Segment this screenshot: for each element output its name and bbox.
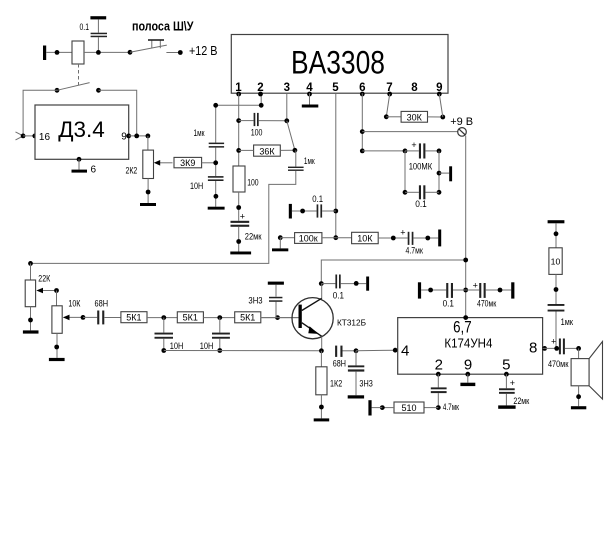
node: [81, 315, 86, 320]
svg-text:1мк: 1мк: [561, 317, 573, 327]
capacitor 470мк (output, polarized): [548, 337, 581, 370]
svg-text:1мк: 1мк: [304, 156, 315, 166]
svg-text:BA3308: BA3308: [291, 45, 385, 81]
capacitor 22мк (polarized): [230, 212, 261, 255]
svg-text:9: 9: [121, 131, 127, 142]
IC BA3308: [231, 35, 448, 95]
svg-text:36К: 36К: [259, 147, 275, 157]
node: [28, 261, 33, 266]
capacitor 1мк (left rail): [194, 128, 225, 148]
svg-text:470мк: 470мк: [477, 299, 496, 309]
wire pin6 rail: [361, 93, 363, 151]
resistor 30К (pins 7-9): [384, 94, 445, 122]
ground: [49, 358, 65, 361]
svg-text:10К: 10К: [68, 299, 81, 309]
node: [134, 134, 139, 139]
svg-text:3Н3: 3Н3: [359, 378, 372, 388]
svg-text:6: 6: [91, 165, 97, 176]
wire: [129, 135, 148, 137]
svg-text:100МК: 100МК: [409, 162, 433, 172]
capacitor 470мк (supply, polarized): [466, 280, 515, 308]
svg-text:0.1: 0.1: [333, 291, 344, 301]
resistor 100к: [280, 233, 351, 244]
wire: [30, 307, 32, 331]
svg-text:6,7: 6,7: [453, 319, 472, 337]
wire diagonal to 36К: [287, 121, 295, 151]
wire: [99, 90, 137, 136]
wire long return bus: [31, 171, 296, 264]
svg-text:22мк: 22мк: [245, 232, 262, 242]
node: [214, 194, 219, 199]
node: [54, 288, 59, 293]
capacitor 22мк (pin5, polarized): [498, 374, 529, 409]
terminal tap: [439, 166, 452, 181]
potentiometer 22К: [25, 263, 56, 306]
svg-text:3: 3: [284, 82, 290, 94]
wire collector: [321, 284, 323, 299]
capacitor 1мк (speaker branch): [548, 304, 573, 348]
svg-text:10Н: 10Н: [190, 181, 203, 191]
wire pin3 stub: [286, 93, 288, 121]
svg-text:2: 2: [435, 356, 443, 373]
svg-text:68Н: 68Н: [333, 358, 346, 368]
svg-text:+: +: [240, 212, 245, 222]
capacitor 0.1 (top-left, with top terminal plate): [80, 16, 108, 52]
wire pin2 feed rail: [216, 94, 262, 143]
pin8 node: [542, 346, 547, 351]
capacitor 0.1 (supply decoupling): [418, 282, 466, 308]
svg-text:5: 5: [332, 82, 339, 94]
capacitor 4.7мк (polarized): [400, 228, 438, 256]
node: [554, 231, 559, 236]
node base: [275, 315, 280, 320]
wire: [555, 223, 557, 248]
capacitor 1мк (pin3 branch): [288, 150, 315, 171]
svg-text:+9 В: +9 В: [450, 116, 473, 128]
terminal (top right): [548, 220, 565, 223]
node pin16: [32, 134, 37, 139]
node: [217, 315, 222, 320]
capacitor 3Н3 (to ground): [348, 351, 373, 399]
potentiometer 10К: [52, 299, 83, 334]
svg-text:Д3.4: Д3.4: [58, 117, 105, 142]
+9 В supply connector: [450, 116, 473, 136]
resistor 1К2: [314, 351, 343, 422]
svg-text:5: 5: [502, 356, 510, 373]
node pin 6,7 top: [463, 315, 468, 320]
wire emitter bus: [164, 350, 322, 352]
svg-text:5К1: 5К1: [240, 313, 255, 323]
svg-text:+: +: [473, 280, 478, 290]
wire emitter: [321, 336, 323, 350]
svg-text:К174УН4: К174УН4: [444, 336, 492, 351]
wire: [555, 274, 557, 304]
svg-text:10Н: 10Н: [200, 341, 214, 351]
node: [236, 118, 241, 123]
wire loop left rail: [404, 151, 406, 192]
svg-text:8: 8: [411, 82, 418, 94]
pin 9 node: [126, 134, 131, 139]
wire: [46, 51, 72, 53]
capacitor 68Н (series): [83, 299, 121, 325]
svg-text:полоса Ш\У: полоса Ш\У: [132, 19, 194, 34]
pin9 ground: [460, 372, 475, 386]
wire: [215, 181, 217, 207]
pin5 node: [504, 372, 509, 377]
svg-text:22К: 22К: [38, 274, 51, 284]
wire: [147, 136, 149, 150]
node emitter: [319, 348, 324, 353]
node pin4: [393, 348, 398, 353]
svg-text:30К: 30К: [407, 112, 423, 122]
svg-text:0.1: 0.1: [443, 299, 454, 309]
svg-text:68Н: 68Н: [95, 299, 109, 309]
node: [213, 160, 218, 165]
wire +9V feed: [362, 131, 457, 133]
wire: [56, 291, 58, 306]
svg-text:1мк: 1мк: [194, 128, 205, 138]
svg-text:510: 510: [401, 403, 416, 413]
pin4 ground: [302, 93, 319, 107]
ground: [23, 330, 39, 333]
node: [391, 236, 396, 241]
wire collector supply run: [321, 260, 465, 284]
svg-text:10К: 10К: [357, 234, 373, 244]
pin1 node: [236, 92, 241, 97]
node: [554, 346, 559, 351]
pin9 node: [437, 92, 442, 97]
svg-text:100: 100: [251, 128, 263, 138]
IC К174УН4: [398, 318, 543, 375]
pin 6 ground: [72, 157, 97, 176]
pin7 node: [387, 92, 392, 97]
speaker: [571, 342, 603, 410]
resistor (relay coil, vertical): [72, 41, 84, 64]
resistor 5К1 (3): [235, 312, 298, 323]
capacitor 100МК (polarized, loop top): [403, 140, 442, 172]
ground: [208, 207, 225, 210]
resistor 10: [549, 248, 562, 275]
svg-text:4.7мк: 4.7мк: [406, 245, 423, 255]
capacitor 10Н (shunt 2): [200, 318, 230, 353]
svg-text:5К1: 5К1: [183, 313, 198, 323]
svg-text:+: +: [411, 140, 416, 150]
node: [236, 205, 241, 210]
svg-text:3Н3: 3Н3: [248, 295, 262, 305]
svg-text:КТ312Б: КТ312Б: [337, 317, 366, 327]
wire: [238, 192, 240, 221]
wire: [362, 150, 405, 152]
capacitor 68Н (emitter out): [333, 346, 356, 369]
IC Д3.4: [35, 105, 129, 159]
pin6 node: [360, 92, 365, 97]
wire to pin4: [356, 349, 395, 352]
node: [293, 148, 298, 153]
node: [333, 209, 338, 214]
node: [28, 318, 33, 323]
svg-text:5К1: 5К1: [126, 313, 141, 323]
push-button switch to +12 B: [128, 39, 183, 55]
svg-text:10: 10: [551, 256, 561, 266]
capacitor 3Н3 + input terminal (base): [248, 282, 284, 318]
wire: [202, 162, 216, 164]
potentiometer 2К2: [126, 150, 173, 178]
node: [54, 345, 59, 350]
resistor 3К9: [174, 157, 202, 168]
svg-text:2К2: 2К2: [126, 166, 138, 176]
pin2 node: [436, 372, 441, 377]
svg-text:4.7мк: 4.7мк: [443, 402, 459, 412]
node: [319, 281, 324, 286]
capacitor 10Н (shunt 1): [155, 318, 184, 353]
wire loop right rail: [438, 151, 440, 192]
input terminal + capacitor 0.1 (series, y=211): [289, 194, 336, 219]
svg-text:+: +: [551, 337, 556, 347]
node: [360, 149, 365, 154]
wire +9V rail down: [465, 136, 467, 318]
dashed link relay coil to contact: [78, 64, 80, 85]
resistor 5К1 (2): [177, 312, 234, 323]
node: [284, 118, 289, 123]
wire: [56, 333, 58, 358]
node: [463, 258, 468, 263]
svg-text:0.1: 0.1: [415, 199, 427, 209]
svg-text:0.1: 0.1: [312, 194, 323, 204]
transistor КТ312Б: [261, 298, 366, 339]
svg-text:16: 16: [39, 132, 51, 143]
capacitor 0.1 (collector out): [321, 275, 369, 301]
node: [161, 315, 166, 320]
resistor 10К: [352, 232, 408, 243]
node: [360, 129, 365, 134]
ground: [140, 203, 156, 206]
wire: [543, 347, 559, 349]
resistor 36К: [239, 145, 295, 157]
node: [354, 348, 359, 353]
svg-text:470мк: 470мк: [548, 359, 568, 369]
svg-text:+: +: [510, 378, 515, 388]
node: [259, 103, 264, 108]
antenna input arrow at pin 16: [16, 132, 26, 140]
resistor 100 (vertical): [233, 166, 259, 192]
svg-text:100: 100: [247, 178, 258, 188]
node: [55, 50, 60, 55]
wire: [23, 90, 57, 136]
wire pin5 rail: [335, 93, 337, 238]
svg-text:22мк: 22мк: [513, 396, 529, 406]
wire: [23, 135, 35, 137]
svg-text:10Н: 10Н: [170, 341, 184, 351]
resistor 510: [368, 400, 438, 415]
svg-text:4: 4: [401, 342, 409, 359]
wire pin1 rail: [238, 93, 240, 166]
pin4 node: [307, 92, 312, 97]
svg-text:9: 9: [464, 356, 472, 373]
svg-text:+: +: [400, 228, 405, 238]
wire: [215, 148, 217, 177]
node: [213, 103, 218, 108]
svg-text:100к: 100к: [299, 234, 318, 244]
resistor 5К1 (1): [121, 312, 177, 323]
node: [554, 287, 559, 292]
node: [146, 190, 151, 195]
svg-text:8: 8: [529, 339, 537, 356]
svg-text:0.1: 0.1: [80, 22, 90, 32]
node: [146, 134, 151, 139]
capacitor 0.1 (loop bottom): [403, 185, 442, 209]
node: [463, 288, 468, 293]
capacitor 10Н (left rail): [190, 176, 224, 191]
capacitor 4.7мк (pin2): [431, 374, 459, 412]
ground: [272, 235, 288, 251]
svg-text:+12 В: +12 В: [189, 44, 218, 58]
node: [437, 171, 442, 176]
wire: [147, 179, 149, 204]
node: [96, 50, 101, 55]
input terminal (top-left): [43, 46, 46, 61]
svg-text:3К9: 3К9: [180, 158, 195, 168]
terminal: [438, 230, 441, 247]
wire: [84, 51, 130, 53]
node: [333, 235, 338, 240]
node: [236, 148, 241, 153]
capacitor 100 (pins 1-3): [239, 113, 287, 138]
pin2 node: [258, 92, 263, 97]
svg-text:1К2: 1К2: [330, 378, 342, 388]
relay contact switch: [55, 83, 101, 93]
